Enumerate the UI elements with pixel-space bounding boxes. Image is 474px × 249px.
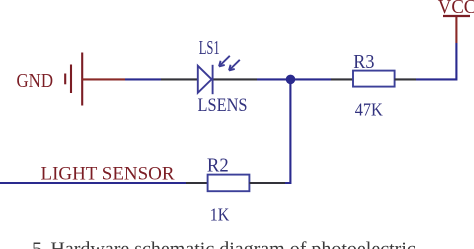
wire: GND to LS1 (blue) (125, 78, 161, 80)
pin: R2 right (dark) (249, 182, 285, 184)
resistor R3 body (353, 71, 395, 87)
svg-text:47K: 47K (355, 100, 383, 120)
ground symbol (power port, 3 bars) (65, 53, 82, 106)
pin: R3 right (dark) (395, 78, 416, 80)
svg-text:LS1: LS1 (199, 38, 220, 59)
photodiode LS1 cathode bar (212, 65, 214, 94)
wire: light sensor rail (blue) (0, 182, 186, 184)
light arrow 1 (219, 56, 230, 67)
wire: R3 to VCC corner (blue) (416, 43, 456, 79)
svg-text:GND: GND (17, 70, 54, 92)
svg-text:R2: R2 (207, 154, 229, 176)
wire: R2 to junction (blue) (285, 79, 290, 183)
VCC bar (443, 15, 470, 17)
resistor R2 body (208, 175, 250, 192)
junction node (286, 75, 296, 85)
pin: LS1 anode (dark) (161, 78, 198, 80)
svg-text:LSENS: LSENS (198, 95, 248, 116)
wire: diode to junction (blue) (257, 78, 331, 80)
pin: R3 left (dark) (331, 78, 353, 80)
svg-text:VCC: VCC (438, 0, 474, 18)
pin: LS1 cathode (dark) (214, 78, 258, 80)
svg-text:5.Hardware schematic diagram o: 5.Hardware schematic diagram of photoele… (32, 239, 416, 249)
pin: R2 left (dark) (186, 182, 208, 184)
wire: GND power stub (red) (82, 78, 125, 80)
photodiode LS1 triangle (198, 66, 212, 93)
wire: VCC power stub (red) (455, 16, 457, 43)
svg-text:R3: R3 (353, 51, 374, 73)
light arrow 2 (229, 60, 240, 71)
svg-text:LIGHT SENSOR: LIGHT SENSOR (41, 163, 175, 184)
svg-text:1K: 1K (210, 204, 230, 224)
